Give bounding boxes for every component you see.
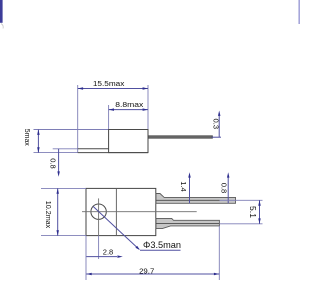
vertical center line (blue part) — [98, 236, 100, 259]
arrow 0.8 lead up — [227, 172, 230, 177]
molding body rectangle (top view) — [109, 130, 148, 153]
hole leader diagonal — [93, 206, 139, 249]
svg-text:1.4: 1.4 — [179, 181, 188, 192]
extension line 5max bottom — [34, 152, 79, 154]
page-edge artifact left bar — [0, 0, 3, 23]
leader line 0.8 lead — [227, 176, 229, 204]
arrow 2.8 right — [117, 255, 122, 258]
hole label underline — [140, 249, 181, 251]
dimension line 15.5max — [78, 88, 148, 90]
extension line 8.8max left (molding left edge) — [108, 105, 110, 130]
arrow 5max up — [37, 130, 40, 135]
extension line right (body right edge) — [147, 85, 149, 130]
extension line 5.1 top — [220, 199, 263, 201]
dimension line 2.8 — [86, 256, 117, 258]
svg-text:Φ3.5man: Φ3.5man — [143, 240, 181, 250]
hole leader arrow — [135, 246, 140, 250]
arrow 1.4 up — [188, 172, 191, 177]
tab/molding boundary line — [115, 188, 117, 235]
extension line body left down — [85, 236, 87, 281]
dimension line 5max — [37, 130, 39, 153]
bottom lead (front view) — [156, 218, 219, 228]
tab top edge (top view) — [78, 148, 109, 150]
dimension line 8.8max — [109, 109, 148, 111]
svg-text:0.3: 0.3 — [211, 119, 220, 130]
horizontal center line — [82, 211, 197, 213]
svg-text:2.8: 2.8 — [103, 247, 114, 256]
extension line lead tip down — [218, 226, 220, 280]
arrow 10.2max up — [56, 188, 59, 193]
arrow 5.1 down — [258, 218, 261, 223]
arrow 15.5max left — [78, 87, 83, 90]
dimension line 10.2max — [57, 188, 59, 235]
mounting hole circle — [91, 204, 106, 219]
arrow 29.7 left — [86, 273, 91, 276]
arrow 8.8max right — [143, 108, 148, 111]
arrow 10.2max down — [56, 230, 59, 235]
extension line 5.1 bottom — [219, 223, 262, 225]
top lead (front view) — [156, 194, 236, 204]
svg-text:5.1: 5.1 — [248, 206, 257, 219]
leader line 0.8 tab — [58, 149, 60, 174]
arrow 29.7 right — [214, 273, 219, 276]
lead (top view) — [148, 136, 212, 138]
svg-text:0.8: 0.8 — [220, 183, 229, 194]
extension line 0.8 tab — [53, 148, 78, 150]
top lead middle line — [156, 199, 220, 201]
svg-text:8.8max: 8.8max — [115, 100, 143, 109]
molding top edge dark overlay — [109, 129, 148, 131]
svg-text:5max: 5max — [23, 129, 32, 146]
dimension line 5.1 — [259, 200, 261, 224]
extension line 10.2max bottom — [41, 235, 86, 237]
extension line 10.2max top — [41, 187, 86, 189]
svg-text:15.5max: 15.5max — [93, 79, 125, 88]
leader line 0.3 — [218, 114, 220, 138]
arrow 5.1 up — [258, 200, 261, 205]
extension line left of 15.5max (tab left edge) — [77, 85, 79, 152]
extension tick 0.3 — [212, 136, 222, 138]
bottom lead middle line — [156, 222, 219, 224]
body rectangle (front view) — [86, 188, 156, 235]
arrow 5max down — [37, 147, 40, 152]
svg-text:10.2max: 10.2max — [44, 201, 53, 229]
arrow 15.5max right — [143, 87, 148, 90]
arrow 0.8 tab down — [57, 171, 60, 176]
vertical center line (dark part) — [98, 198, 100, 235]
page-edge artifact left wisp — [1, 24, 3, 29]
extension line 5max top — [34, 129, 109, 131]
tab bottom edge (top view) — [78, 152, 148, 154]
page-edge artifact right line — [298, 0, 300, 24]
dimension line 29.7 — [86, 273, 219, 275]
svg-text:29.7: 29.7 — [139, 266, 154, 275]
arrow 8.8max left — [109, 108, 114, 111]
arrow 0.3 up — [218, 111, 221, 116]
svg-text:0.8: 0.8 — [49, 158, 58, 169]
leader line 1.4 — [189, 176, 191, 204]
